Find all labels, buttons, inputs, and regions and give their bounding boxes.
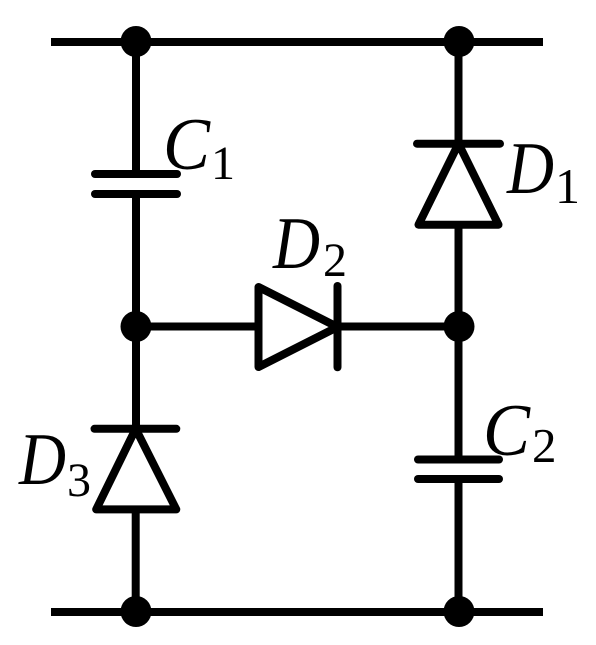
diode D2 bbox=[259, 286, 338, 367]
wire right branch mid (D1 to middle node) bbox=[455, 223, 463, 327]
capacitor C1 bbox=[95, 174, 177, 194]
svg-text:1: 1 bbox=[211, 137, 235, 190]
svg-text:2: 2 bbox=[323, 234, 347, 287]
label D2 bbox=[272, 203, 347, 287]
wire middle horizontal right (D2 cathode to node) bbox=[337, 323, 459, 331]
label C2 bbox=[483, 390, 557, 473]
label D1 bbox=[506, 128, 580, 214]
svg-text:1: 1 bbox=[555, 158, 580, 214]
label D3 bbox=[18, 419, 91, 507]
capacitor C2 bbox=[418, 460, 499, 480]
svg-text:D: D bbox=[506, 128, 554, 210]
node top-left junction bbox=[121, 26, 152, 57]
node middle-left junction bbox=[121, 311, 152, 342]
wire left branch lower (middle node to D3) bbox=[132, 327, 140, 431]
node middle-right junction bbox=[444, 311, 475, 342]
svg-text:D: D bbox=[18, 419, 66, 501]
node bottom-right junction bbox=[444, 596, 475, 627]
wire right branch lower (middle node to C2) bbox=[455, 327, 463, 462]
wire middle horizontal left (node to D2 anode) bbox=[136, 323, 259, 331]
wire left branch mid (C1 to middle node) bbox=[132, 192, 140, 327]
svg-text:C: C bbox=[163, 104, 212, 186]
wire right branch upper (top bus to D1) bbox=[455, 42, 463, 145]
svg-text:3: 3 bbox=[67, 454, 91, 507]
wire left branch upper (top bus to C1) bbox=[132, 42, 140, 176]
wire left branch bottom (D3 to bottom bus) bbox=[132, 507, 140, 612]
diode D3 bbox=[95, 429, 177, 510]
wire top bus bbox=[51, 38, 543, 46]
wire bottom bus bbox=[51, 608, 543, 616]
svg-text:D: D bbox=[272, 203, 320, 285]
wire right branch bottom (C2 to bottom bus) bbox=[455, 477, 463, 612]
svg-text:2: 2 bbox=[532, 418, 557, 473]
diode D1 bbox=[417, 144, 500, 225]
svg-text:C: C bbox=[483, 390, 532, 472]
node bottom-left junction bbox=[121, 596, 152, 627]
node top-right junction bbox=[444, 26, 475, 57]
label C1 bbox=[163, 104, 235, 190]
